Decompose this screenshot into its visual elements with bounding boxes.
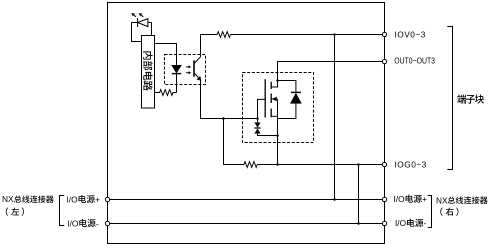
- MOSFET Q1 gate lead: [258, 99, 266, 118]
- svg-text:I/O: I/O: [394, 194, 406, 204]
- wire: I/O power - rail: [108, 223, 385, 225]
- junction: IOV rail to supply+ drop: [333, 33, 336, 36]
- opto LED (filled triangle + bar): [172, 65, 182, 73]
- junction: IOG rail to supply- drop: [357, 163, 360, 166]
- indicator LED D1 (triangle + cathode bar): [138, 18, 148, 27]
- svg-text:IOG0~3: IOG0~3: [395, 160, 427, 170]
- MOSFET Q1 gate plate: [264, 79, 266, 117]
- wire: OUT rail and drain drop: [278, 62, 385, 81]
- outer border: I/O unit enclosure: [108, 3, 385, 244]
- wire: diode branch top: [278, 81, 296, 119]
- wire: IOG to I/O power -: [358, 165, 360, 224]
- opto light arrows: [186, 66, 189, 68]
- svg-text:OUT0~OUT3: OUT0~OUT3: [394, 55, 435, 65]
- wire: opto LED cathode down: [176, 74, 178, 93]
- wire: IOG rail to terminal: [257, 164, 384, 166]
- MOSFET output stage dashed box: [243, 73, 314, 143]
- junction: diode top on drain: [276, 79, 279, 82]
- terminal I/O power + left: [105, 197, 109, 201]
- resistor R3 on IOG rail: [244, 162, 257, 168]
- wire: IOV to I/O power +: [334, 35, 336, 200]
- wire: drop to IOG rail: [224, 119, 245, 165]
- svg-text:+: +: [422, 194, 427, 204]
- svg-text:-: -: [424, 218, 427, 228]
- MOSFET Q1 channel segments: [270, 82, 272, 118]
- terminal IOV0~3: [382, 32, 386, 36]
- junction: at power- rail: [357, 222, 360, 225]
- svg-text:+: +: [95, 194, 100, 204]
- svg-text:-: -: [96, 218, 99, 228]
- terminal I/O power - left: [105, 221, 109, 225]
- wire: source down through junctions to IOG rail: [277, 99, 279, 164]
- label 内部电路 (rotated): [143, 51, 152, 59]
- internal circuit box (内部电路): [142, 36, 155, 109]
- svg-text:I/O: I/O: [67, 218, 79, 228]
- svg-text:NX: NX: [2, 194, 14, 204]
- junction: gate rail / TVS: [256, 117, 259, 120]
- junction: at power+ rail: [333, 198, 336, 201]
- wire: internal box to opto LED anode: [155, 44, 177, 66]
- label 端子块: [457, 94, 466, 103]
- terminal I/O power - right: [382, 221, 386, 225]
- junction: TVS return on source line: [276, 134, 279, 137]
- terminal OUT0~OUT3: [382, 59, 386, 63]
- wire: I/O power + rail: [108, 199, 385, 201]
- junction: source/IOG: [276, 163, 279, 166]
- svg-text:I/O: I/O: [395, 218, 407, 228]
- bracket: terminal block: [447, 27, 452, 170]
- opto phototransistor: [193, 60, 195, 76]
- optocoupler dashed box: [165, 55, 206, 85]
- junction: gate rail to IOG drop: [222, 117, 225, 120]
- wire: IOV rail to terminal: [231, 34, 385, 36]
- MOSFET Q1 source stub: [271, 115, 277, 117]
- terminal I/O power + right: [382, 197, 386, 201]
- indicator LED wire loop: [132, 23, 152, 42]
- wire: emitter down + gate rail: [201, 80, 258, 119]
- svg-text:I/O: I/O: [67, 194, 79, 204]
- MOSFET Q1 drain stub: [271, 81, 277, 88]
- bracket: NX bus connector (left): [60, 196, 65, 226]
- indicator LED light arrows: [134, 15, 136, 17]
- wire: collector up to IOV rail corner: [201, 35, 218, 57]
- terminal IOG0~3: [382, 162, 386, 166]
- TVS zener D2 (bidirectional): [258, 119, 278, 136]
- MOSFET Q1 body arrow stub: [272, 98, 278, 100]
- resistor R2 in opto LED return: [155, 90, 177, 96]
- diode D3 (flyback, cathode up): [291, 91, 301, 93]
- svg-text:NX: NX: [436, 195, 448, 205]
- bracket: NX bus connector (right): [428, 196, 432, 228]
- svg-text:IOV0~3: IOV0~3: [395, 30, 426, 40]
- resistor R1 on IOV rail: [217, 32, 230, 38]
